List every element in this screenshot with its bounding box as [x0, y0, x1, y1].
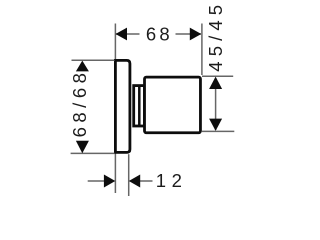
svg-text:12: 12	[156, 170, 188, 191]
right dimension bottom extension line	[202, 130, 234, 132]
left dimension arrow down	[76, 141, 89, 153]
sleeve	[134, 86, 145, 126]
sleeve joint seam line	[138, 85, 141, 127]
top dimension line left segment	[116, 33, 140, 35]
bottom dimension right lead line	[140, 180, 153, 182]
bottom dimension right extension line	[128, 154, 130, 196]
top dimension arrow left	[116, 28, 128, 41]
bottom dimension arrow pointing left	[129, 175, 140, 188]
right dimension top extension line	[202, 75, 233, 77]
top dimension line right segment	[176, 33, 202, 35]
left dimension arrow up	[76, 61, 89, 72]
wall line	[114, 24, 116, 194]
left dimension bottom extension line	[71, 152, 115, 154]
handle	[145, 77, 201, 133]
svg-text:68: 68	[146, 23, 173, 44]
right dimension arrow up	[209, 77, 222, 89]
top dimension right extension line	[201, 24, 203, 76]
top dimension arrow right	[190, 28, 202, 41]
right dimension line	[215, 78, 217, 130]
escutcheon plate	[115, 60, 129, 152]
bottom dimension left lead line	[88, 180, 105, 182]
svg-text:68/68: 68/68	[69, 69, 90, 138]
bottom dimension arrow pointing right	[104, 175, 115, 188]
right dimension arrow down	[209, 119, 222, 131]
svg-text:45/45: 45/45	[205, 0, 226, 72]
left dimension top extension line	[72, 59, 115, 61]
